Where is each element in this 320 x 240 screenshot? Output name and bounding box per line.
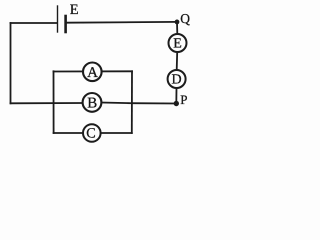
svg-text:E: E	[70, 2, 79, 18]
wire node P to right rail	[132, 102, 176, 104]
wire branch C horizontal	[54, 132, 132, 134]
battery E short plate	[64, 16, 67, 32]
svg-text:E: E	[173, 37, 182, 52]
meter B	[83, 93, 102, 112]
meter A	[83, 63, 102, 82]
voltmeter E (right column)	[169, 34, 187, 52]
svg-text:D: D	[172, 73, 182, 88]
node P junction dot	[174, 101, 179, 106]
node Q junction dot	[175, 20, 180, 25]
wire right rail vertical	[131, 71, 133, 133]
meter D	[168, 70, 186, 88]
wire bottom-left horizontal to node B branch	[11, 102, 84, 104]
wire meter E to meter D	[176, 52, 179, 70]
svg-text:B: B	[87, 96, 97, 112]
wire meter D to node P	[175, 88, 177, 104]
svg-text:A: A	[87, 65, 98, 81]
svg-text:C: C	[86, 125, 95, 141]
wire Q down to meter E	[176, 22, 178, 34]
wire left vertical	[10, 23, 12, 103]
wire branch B right segment	[101, 102, 132, 105]
meter C	[83, 124, 101, 142]
wire battery to node Q	[67, 21, 177, 24]
svg-text:P: P	[180, 92, 187, 107]
wire top-left horizontal	[11, 22, 58, 24]
battery E long plate	[57, 6, 59, 32]
svg-text:Q: Q	[180, 11, 190, 26]
wire left rail vertical	[53, 71, 55, 133]
wire branch A horizontal	[54, 70, 133, 72]
